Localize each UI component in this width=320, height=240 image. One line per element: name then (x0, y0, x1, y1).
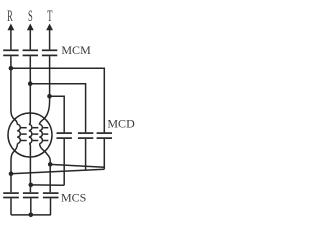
wire S column below contact to motor (29, 56, 30, 124)
contactor MCS pole 1 (3, 193, 19, 197)
label MCM (61, 43, 91, 57)
wire V2 to MCD pole1 bottom (31, 184, 64, 186)
contactor MCD pole 3 (97, 133, 112, 138)
arrow S phase input (27, 24, 34, 50)
contactor MCD pole 2 (78, 133, 93, 138)
wire S to MCD (horizontal y=83.7, corner x=85.6) (30, 84, 85, 133)
svg-text:T: T (47, 7, 52, 24)
arrow T phase input (46, 24, 53, 50)
motor winding coil 3 (39, 124, 48, 143)
svg-text:MCM: MCM (61, 43, 91, 57)
node dot star point (29, 213, 34, 218)
node dot T junction (47, 94, 52, 99)
contactor MCS pole 2 (23, 193, 39, 197)
motor winding coil 2 (29, 124, 38, 143)
wire U2 to MCD pole3 corner (line B) (11, 169, 104, 173)
node dot R junction (9, 66, 14, 71)
wire MCD pole2 lower (85, 139, 87, 170)
wire motor lead V2 (middle, to MCS#2) (29, 144, 30, 193)
contactor MCS pole 3 (43, 193, 59, 197)
arrow R phase input (8, 24, 15, 50)
svg-text:MCD: MCD (107, 117, 135, 131)
node S label (28, 7, 33, 24)
wire R to MCD (horizontal y=68.2, corner x=104.3) (11, 68, 104, 132)
wire MCD pole3 lower (103, 139, 105, 169)
contactor MCD pole 1 (57, 133, 72, 138)
wire motor lead W2 (right, to MCS#3) (40, 144, 51, 193)
label MCS (61, 190, 86, 204)
node R label (7, 7, 13, 24)
node dot S junction (28, 81, 33, 86)
node dot U2 junction (9, 171, 14, 176)
wire MCD pole1 lower (63, 139, 65, 185)
node T label (47, 7, 52, 24)
contactor MCM pole S (23, 50, 38, 55)
node dot V2 junction (29, 183, 34, 188)
wire T column below contact to motor (39, 56, 49, 124)
wire W2 to MCD pole3 (line A) (50, 164, 104, 167)
wire star point bus (11, 214, 51, 216)
wire MCS#1 to star bus (10, 198, 12, 215)
svg-text:R: R (7, 7, 13, 24)
node dot W2 junction (48, 162, 53, 167)
wire MCS#2 to star bus (30, 198, 32, 215)
wire MCS#3 to star bus (50, 198, 52, 215)
svg-text:MCS: MCS (61, 190, 86, 204)
svg-text:S: S (28, 7, 33, 24)
label MCD (107, 117, 135, 131)
contactor MCM pole T (42, 50, 57, 55)
motor circle M (8, 113, 52, 157)
motor winding coil 1 (17, 124, 26, 143)
wire motor lead U2 (left, to MCS#1) (11, 144, 18, 193)
wire R column below contact to motor (11, 56, 17, 124)
wire T to MCD (horizontal y=96.2, corner x=64.2) (50, 96, 65, 132)
contactor MCM pole R (3, 50, 18, 55)
